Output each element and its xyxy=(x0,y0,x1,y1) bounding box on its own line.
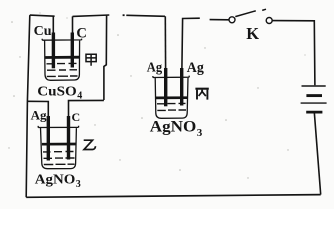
label yi (cell 2) xyxy=(84,140,96,149)
switch K blade dash xyxy=(262,9,266,10)
label jia (cell 1) xyxy=(86,54,96,66)
svg-text:3: 3 xyxy=(76,179,81,190)
svg-text:CuSO: CuSO xyxy=(37,85,77,100)
wire run A2: cell jia C electrode to down-drop xyxy=(73,15,110,16)
liquid dashes in bing xyxy=(157,103,186,110)
wire: drop from run B to bing left electrode xyxy=(164,16,166,68)
wire: switch to battery positive top xyxy=(272,21,315,86)
svg-text:Cu: Cu xyxy=(34,24,52,39)
svg-text:AgNO: AgNO xyxy=(35,173,76,188)
wire: drop from A2 to C electrode xyxy=(72,16,74,33)
beaker yi xyxy=(38,126,78,169)
battery plate long top xyxy=(302,85,326,87)
wire: A2 right vertical drop with jog xyxy=(104,15,107,100)
beaker bing xyxy=(153,76,189,119)
electrode Ag left in cell bing xyxy=(164,68,167,106)
wire: horizontal into cell yi C electrode xyxy=(69,100,104,117)
wire: bing right electrode up and over to switch side xyxy=(182,18,200,68)
wire left vertical: node to battery negative via bottom xyxy=(26,15,30,197)
electrode C in cell jia xyxy=(71,33,74,68)
svg-text:3: 3 xyxy=(197,127,203,139)
svg-text:4: 4 xyxy=(77,90,82,101)
svg-text:Ag: Ag xyxy=(147,61,162,76)
wire: battery negative to bottom rail xyxy=(314,113,320,194)
liquid CuSO4 surface in jia xyxy=(45,56,79,59)
svg-text:K: K xyxy=(246,24,259,43)
wire bottom rail xyxy=(26,195,321,198)
svg-text:Ag: Ag xyxy=(187,60,204,76)
liquid AgNO3 surface in bing xyxy=(156,96,187,99)
battery plate short thick bottom xyxy=(306,111,322,114)
switch K right terminal xyxy=(266,18,272,24)
liquid dashes in yi xyxy=(43,152,75,165)
liquid dashes in jia xyxy=(47,63,78,76)
electrode Ag right in cell bing xyxy=(180,68,183,106)
beaker jia xyxy=(42,39,81,81)
wire run A1: cell jia Cu electrode top rail xyxy=(30,15,55,16)
svg-text:C: C xyxy=(72,110,81,124)
battery plate long lower xyxy=(301,102,327,104)
svg-text:Ag: Ag xyxy=(31,107,47,122)
label bing (cell 3) xyxy=(195,89,208,100)
switch K left terminal xyxy=(229,17,235,23)
wire run B: top rail to cell bing left electrode xyxy=(123,14,125,16)
scan speckle xyxy=(8,12,305,178)
wire: drop from A1 to Cu electrode xyxy=(52,16,54,33)
electrode Ag in cell yi xyxy=(47,116,50,161)
battery plate short thick upper xyxy=(306,94,322,97)
wire: T-branch into cell yi Ag electrode xyxy=(27,101,48,117)
electrode Cu in cell jia xyxy=(52,33,55,69)
svg-text:C: C xyxy=(76,26,86,42)
switch K left lead wire xyxy=(210,19,229,21)
electrode C in cell yi xyxy=(67,116,70,160)
liquid AgNO3 surface in yi xyxy=(42,143,76,146)
switch K blade (open) xyxy=(235,11,256,17)
svg-text:AgNO: AgNO xyxy=(150,118,197,135)
